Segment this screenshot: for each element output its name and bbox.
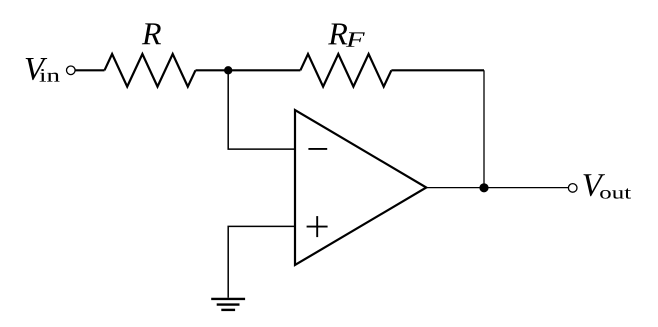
resistor R [105, 54, 196, 87]
wire resistor R to node A [196, 69, 229, 71]
terminal Vin [67, 66, 76, 75]
op-amp U1 [295, 110, 426, 265]
node output (junction dot) [479, 183, 488, 192]
ground [211, 299, 245, 310]
minus sign (inverting input) [308, 148, 327, 150]
plus sign (non-inverting input) [307, 216, 328, 237]
label Vout [583, 174, 631, 198]
wire node A to resistor RF [228, 69, 300, 71]
label RF [328, 23, 365, 46]
label R [142, 23, 161, 44]
label Vin [26, 58, 60, 82]
wire op-amp output to Vout terminal [426, 187, 568, 189]
node A (junction dot) [224, 66, 232, 74]
wire feedback vertical drop [483, 70, 485, 187]
wire Vin terminal to resistor R [75, 69, 104, 71]
wire resistor RF to feedback corner [391, 69, 484, 71]
wire node A to inverting input [228, 70, 295, 149]
wire non-inverting input to ground [228, 226, 295, 297]
resistor RF [300, 54, 391, 87]
terminal Vout [568, 184, 577, 193]
